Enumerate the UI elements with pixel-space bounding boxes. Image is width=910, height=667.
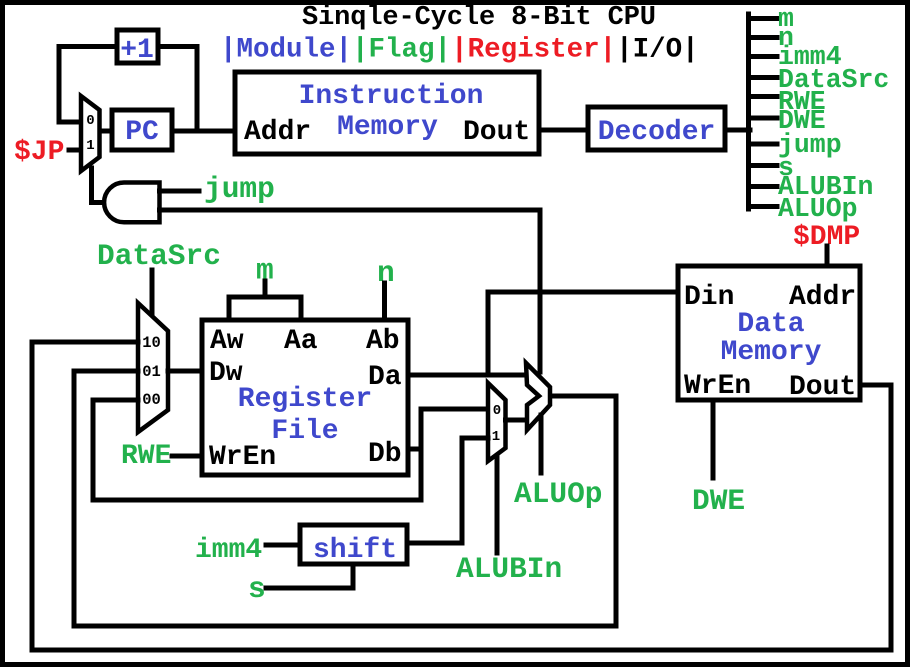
wire stub ALUBIn <box>749 184 778 189</box>
svg-text:jump: jump <box>204 172 275 206</box>
wire mux3 out to Dw <box>168 369 202 374</box>
svg-text:Register: Register <box>238 384 372 415</box>
wire RWE stub <box>172 454 202 459</box>
svg-text:Decoder: Decoder <box>598 117 716 148</box>
wire flag input from ALU <box>160 210 541 372</box>
wire $JP stub <box>69 148 81 153</box>
wire stub ALUOp <box>749 204 778 209</box>
block Data Memory <box>678 266 860 400</box>
block +1 <box>117 30 158 63</box>
svg-text:Dout: Dout <box>789 372 856 403</box>
svg-text:WrEn: WrEn <box>209 442 276 473</box>
svg-text:10: 10 <box>142 334 161 352</box>
svg-text:+1: +1 <box>120 35 154 66</box>
and gate G1 <box>104 183 159 223</box>
alu U1 <box>526 363 550 430</box>
svg-text:ALUOp: ALUOp <box>514 477 603 511</box>
wire stub s <box>749 163 778 168</box>
wire DataSrc select <box>150 270 155 317</box>
wire s to shift bottom <box>266 566 353 588</box>
svg-text:Aw: Aw <box>210 326 244 357</box>
wire mux3 input 01 from ALU loop <box>74 371 138 626</box>
block shift <box>300 525 407 564</box>
svg-text:$JP: $JP <box>14 137 64 168</box>
svg-text:Aa: Aa <box>284 326 318 357</box>
wire PC out to Instruction Memory Addr <box>172 129 235 134</box>
wire mux1 out to PC <box>99 129 112 134</box>
wire gate out to mux select <box>92 168 104 203</box>
wire Da up to Data Memory Din <box>488 292 678 375</box>
wire mux3 input 00 from Db loop <box>93 400 138 500</box>
svg-text:0: 0 <box>86 113 94 129</box>
wire mux3 input 10 from memory loop <box>32 342 138 649</box>
wire stub jump <box>749 142 778 147</box>
mux ALUBmux <box>488 383 506 461</box>
wire mux2 out to ALU input B <box>506 418 528 423</box>
wire imm4 to shift <box>266 543 300 548</box>
wire stub n <box>749 35 778 40</box>
mux PCmux <box>81 96 100 171</box>
svg-text:shift: shift <box>313 535 397 566</box>
wire Decoder out <box>725 128 750 133</box>
svg-text:|Module||Flag||Register||I/O|: |Module||Flag||Register||I/O| <box>220 35 699 66</box>
svg-text:0: 0 <box>493 403 501 419</box>
wire Da to ALU input A <box>408 373 527 378</box>
svg-text:Db: Db <box>368 439 402 470</box>
svg-text:ALUOp: ALUOp <box>778 194 858 224</box>
wire Db out <box>408 447 421 452</box>
wire stub m <box>749 16 778 21</box>
svg-text:ALUBIn: ALUBIn <box>456 552 562 586</box>
block Register File <box>202 320 408 475</box>
svg-text:00: 00 <box>142 391 161 409</box>
wire shift out to mux2 input 1 <box>407 438 488 543</box>
svg-text:File: File <box>271 416 338 447</box>
wire stub imm4 <box>749 54 778 59</box>
wire mux2 select ALUBIn <box>495 456 500 553</box>
wire n to Ab <box>382 283 387 320</box>
svg-text:Memory: Memory <box>337 112 438 143</box>
wire DM Dout to writeback loop <box>32 385 891 650</box>
wire IM Dout to Decoder <box>539 128 588 133</box>
svg-text:Instruction: Instruction <box>299 81 484 112</box>
svg-text:RWE: RWE <box>121 441 171 472</box>
mux WBmux (3-input) <box>138 303 168 432</box>
wire Db up to mux2 input 0 <box>421 409 488 449</box>
wire DM WrEn from DWE <box>711 400 716 478</box>
svg-text:1: 1 <box>492 429 500 445</box>
wire stub RWE <box>749 94 778 99</box>
wire stub DataSrc <box>749 75 778 80</box>
wire decoder fanout bus <box>746 14 751 209</box>
svg-text:imm4: imm4 <box>195 535 262 566</box>
wire +1 to PC input bus <box>158 47 197 132</box>
block PC <box>112 110 172 150</box>
svg-text:s: s <box>248 572 266 606</box>
svg-text:Da: Da <box>368 362 402 393</box>
wire ALUOp select <box>539 415 544 473</box>
svg-text:Dout: Dout <box>463 117 530 148</box>
svg-text:Memory: Memory <box>721 337 822 368</box>
svg-text:PC: PC <box>125 117 159 148</box>
wire m bracket <box>263 281 268 297</box>
wire Db down to writeback loop <box>93 449 421 500</box>
svg-text:Sinqle-Cycle 8-Bit CPU: Sinqle-Cycle 8-Bit CPU <box>302 3 656 33</box>
svg-text:Addr: Addr <box>244 117 311 148</box>
wire stub DWE <box>749 116 778 121</box>
wire ALU out <box>74 396 616 626</box>
svg-text:01: 01 <box>142 363 161 381</box>
svg-text:Din: Din <box>684 282 734 313</box>
svg-text:1: 1 <box>86 138 94 154</box>
wire $DMP to DM Addr <box>825 246 830 266</box>
svg-text:WrEn: WrEn <box>684 371 751 402</box>
svg-text:Ab: Ab <box>366 326 400 357</box>
block Instruction Memory <box>235 72 539 154</box>
block Decoder <box>588 107 725 150</box>
wire jump input <box>160 189 200 194</box>
wire PC+1 feedback loop <box>59 47 117 123</box>
svg-text:DataSrc: DataSrc <box>97 239 221 273</box>
svg-text:DWE: DWE <box>692 484 745 518</box>
svg-text:Data: Data <box>737 309 804 340</box>
